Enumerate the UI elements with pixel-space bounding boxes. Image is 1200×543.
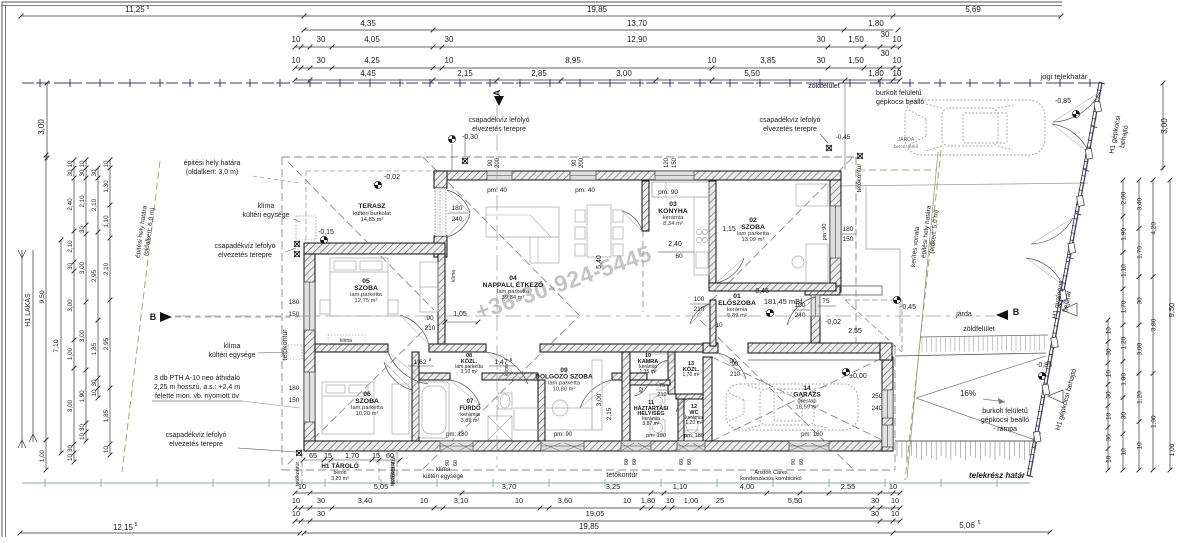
svg-text:10: 10 [1106, 327, 1113, 335]
svg-text:4,45: 4,45 [360, 69, 376, 78]
svg-text:5,40: 5,40 [596, 255, 603, 269]
svg-text:3,00: 3,00 [1160, 118, 1169, 134]
svg-text:200: 200 [495, 157, 501, 168]
left chain 7,10 [60, 240, 62, 453]
window east garage [882, 390, 893, 418]
svg-text:250: 250 [872, 393, 883, 400]
svg-text:30: 30 [881, 49, 890, 58]
svg-text:10: 10 [893, 69, 902, 78]
svg-text:pm: 180: pm: 180 [801, 432, 823, 438]
svg-text:10: 10 [420, 496, 428, 505]
top dimension row 4 [295, 67, 900, 69]
svg-text:30: 30 [67, 169, 74, 177]
svg-text:(oldalkert: 3,0 m): (oldalkert: 3,0 m) [186, 169, 239, 176]
gate arcs pedestrian [1031, 218, 1073, 244]
svg-text:1,90: 1,90 [79, 390, 86, 403]
svg-text:10: 10 [515, 496, 523, 505]
svg-text:10: 10 [623, 496, 631, 505]
svg-text:3,40: 3,40 [358, 496, 373, 505]
svg-text:pm: 40: pm: 40 [487, 187, 507, 194]
svg-text:10: 10 [893, 56, 902, 65]
svg-text:-0,85: -0,85 [1055, 98, 1071, 105]
outer wall north [434, 171, 841, 180]
svg-text:GARÁZS: GARÁZS [793, 390, 821, 399]
svg-text:3,00: 3,00 [79, 261, 86, 274]
door szoba05 [400, 315, 429, 345]
svg-text:10: 10 [1106, 455, 1113, 463]
svg-text:30: 30 [1121, 412, 1128, 420]
svg-text:90: 90 [488, 159, 494, 166]
svg-text:1,20 m²: 1,20 m² [686, 420, 703, 426]
roof contour tetokontur [282, 156, 856, 158]
svg-text:10: 10 [79, 160, 86, 168]
right dim chain x=1139 [1138, 180, 1140, 470]
svg-text:H1 LAKÁS: H1 LAKÁS [23, 293, 32, 327]
svg-text:180: 180 [289, 299, 300, 306]
svg-text:-0,02: -0,02 [384, 174, 400, 181]
svg-text:3,85: 3,85 [760, 56, 776, 65]
svg-text:30: 30 [317, 509, 325, 518]
svg-text:60: 60 [453, 460, 459, 466]
svg-text:csapadékvíz lefolyó: csapadékvíz lefolyó [214, 243, 275, 250]
door dolgozo [580, 380, 612, 408]
svg-text:1,50: 1,50 [848, 35, 864, 44]
svg-text:10: 10 [889, 482, 897, 491]
svg-text:zöldfelület: zöldfelület [963, 326, 995, 333]
parking car dashed top right [905, 100, 1045, 155]
svg-text:2,95: 2,95 [91, 269, 98, 282]
svg-text:90: 90 [445, 460, 451, 466]
konyha west wall [642, 181, 649, 231]
svg-text:30: 30 [1106, 391, 1113, 399]
svg-text:30: 30 [79, 169, 86, 177]
door nappali-corridor 1 [388, 352, 428, 384]
svg-text:ELŐSZOBA: ELŐSZOBA [718, 298, 756, 307]
svg-text:1,05: 1,05 [453, 311, 467, 318]
svg-text:30: 30 [1106, 434, 1113, 442]
svg-text:1,80: 1,80 [868, 19, 884, 28]
svg-text:210: 210 [657, 392, 666, 398]
svg-text:60: 60 [386, 451, 394, 460]
svg-text:19,05: 19,05 [586, 509, 605, 518]
parking pad bottom edge [836, 183, 1088, 186]
svg-text:csapadékvíz lefolyó: csapadékvíz lefolyó [165, 432, 226, 439]
svg-text:burkolt felületű: burkolt felületű [982, 408, 1028, 415]
svg-text:60: 60 [624, 459, 630, 465]
svg-text:-0,30: -0,30 [462, 134, 478, 141]
svg-text:13,70: 13,70 [627, 19, 648, 28]
svg-text:10: 10 [91, 389, 98, 397]
garage west wall [703, 357, 712, 441]
roof hip/ridge dashed diagonals [288, 162, 434, 310]
svg-text:csapadékvíz lefolyó: csapadékvíz lefolyó [759, 117, 820, 124]
svg-text:2,40: 2,40 [67, 198, 74, 211]
svg-text:3,25: 3,25 [606, 482, 621, 491]
svg-text:elvezetés terepre: elvezetés terepre [472, 126, 526, 133]
door furdo [450, 380, 480, 405]
svg-text:60: 60 [632, 459, 638, 465]
svg-text:2,15: 2,15 [606, 407, 613, 420]
svg-text:1,70: 1,70 [345, 451, 359, 460]
front door opening [811, 295, 820, 316]
svg-text:30: 30 [871, 509, 879, 518]
svg-text:-0,45: -0,45 [900, 304, 916, 311]
svg-text:10: 10 [445, 56, 454, 65]
svg-text:10: 10 [103, 446, 110, 454]
svg-text:150: 150 [672, 157, 678, 168]
svg-text:60: 60 [675, 253, 683, 260]
svg-text:210: 210 [425, 325, 436, 332]
svg-text:2,55: 2,55 [848, 328, 862, 335]
door terasz to nappali double [447, 190, 470, 213]
svg-text:klíma: klíma [224, 343, 241, 350]
garage car dashed [726, 384, 858, 430]
svg-text:42: 42 [639, 387, 645, 393]
svg-text:2,15: 2,15 [457, 69, 473, 78]
svg-text:1,10: 1,10 [103, 215, 110, 228]
svg-text:pm: 90: pm: 90 [554, 432, 573, 438]
left dim chain x=110 [109, 160, 111, 455]
ramp outline [895, 353, 1046, 356]
svg-text:4,00: 4,00 [740, 482, 755, 491]
svg-text:240: 240 [795, 312, 806, 319]
svg-text:5: 5 [147, 5, 150, 11]
svg-text:5: 5 [135, 522, 138, 528]
svg-text:30: 30 [91, 379, 98, 387]
bed szoba02 [796, 184, 828, 206]
svg-text:4,35: 4,35 [360, 19, 376, 28]
furdo sink and shower [498, 393, 512, 409]
svg-text:pm: 180: pm: 180 [446, 432, 468, 438]
svg-text:H1 TÁROLÓ: H1 TÁROLÓ [321, 461, 359, 470]
svg-text:3,00: 3,00 [1137, 342, 1144, 355]
right 9,50 chain [1169, 180, 1171, 470]
svg-text:30: 30 [1137, 297, 1144, 305]
svg-text:10: 10 [893, 35, 902, 44]
svg-text:10,20 m²: 10,20 m² [356, 411, 379, 417]
svg-text:90: 90 [729, 358, 737, 365]
svg-text:2,10: 2,10 [67, 240, 74, 253]
svg-text:60: 60 [687, 459, 693, 465]
svg-text:TERASZ: TERASZ [358, 203, 385, 210]
svg-text:5,50: 5,50 [788, 496, 803, 505]
south wall [304, 441, 893, 451]
left dim chain x=98 [97, 168, 99, 398]
eloszoba west wall [710, 300, 716, 346]
window south haztartasi [621, 441, 651, 451]
svg-text:240: 240 [452, 216, 463, 223]
svg-text:30: 30 [445, 35, 454, 44]
svg-text:3,89 m²: 3,89 m² [461, 418, 480, 424]
svg-text:1,70: 1,70 [1137, 246, 1144, 259]
bottom dim row A [295, 492, 900, 494]
door garage from hall [718, 353, 746, 379]
svg-text:2,10: 2,10 [79, 195, 86, 208]
svg-text:SZOBA: SZOBA [355, 398, 379, 405]
fence ruler ticks [1098, 82, 1102, 85]
svg-text:kültéri egysége: kültéri egysége [208, 352, 255, 359]
svg-text:100: 100 [694, 296, 705, 303]
svg-text:1,20: 1,20 [1137, 391, 1144, 404]
svg-text:jogi telekhatár: jogi telekhatár [1040, 72, 1088, 81]
svg-text:10: 10 [1106, 370, 1113, 378]
section line A-A vertical [496, 105, 498, 468]
svg-text:30: 30 [817, 56, 826, 65]
svg-text:tetőkontúr: tetőkontúr [390, 462, 396, 487]
left 3,00 chain [46, 83, 48, 160]
bathtub [419, 382, 449, 438]
left chain 9,50 / 1,00 [45, 155, 47, 470]
porch roof contour dashed [901, 300, 903, 352]
svg-text:10: 10 [292, 509, 300, 518]
svg-text:30: 30 [317, 56, 326, 65]
svg-text:180: 180 [843, 226, 854, 233]
svg-text:klíma: klíma [436, 467, 451, 473]
window north kitchen [655, 171, 694, 180]
svg-text:10: 10 [708, 56, 717, 65]
svg-text:9,50: 9,50 [39, 290, 46, 303]
window west szoba06 [304, 372, 315, 422]
svg-text:30: 30 [317, 35, 326, 44]
dolgozo east wall [622, 352, 630, 441]
svg-text:1,70: 1,70 [1121, 300, 1128, 313]
svg-text:1,85: 1,85 [91, 342, 98, 355]
svg-text:2,95: 2,95 [103, 337, 110, 350]
svg-text:30: 30 [67, 263, 74, 271]
svg-text:csapadékvíz lefolyó: csapadékvíz lefolyó [468, 117, 529, 124]
top dimension row 5 [295, 79, 900, 81]
svg-text:-0,02: -0,02 [825, 319, 841, 326]
svg-text:30: 30 [91, 169, 98, 177]
H1 TAROLO storage outline (dashed, under roof) [301, 452, 303, 484]
svg-text:210: 210 [730, 372, 741, 378]
desk szoba02 [806, 244, 828, 284]
bottom small dims 65 15 1,70 15 60 [303, 459, 400, 461]
szoba05 wardrobe [420, 262, 438, 312]
svg-text:5: 5 [978, 520, 981, 526]
yard step edge [865, 186, 867, 249]
terasz south wall [304, 243, 445, 254]
svg-text:3,10 m²: 3,10 m² [461, 369, 478, 375]
svg-text:elvezetés terepre: elvezetés terepre [169, 441, 223, 448]
svg-text:5,50: 5,50 [744, 69, 760, 78]
bed szoba06 [322, 382, 374, 434]
svg-text:60: 60 [799, 459, 805, 465]
garage north wall [703, 343, 718, 353]
svg-text:pm: 40: pm: 40 [575, 187, 595, 194]
east wall upper [830, 180, 841, 292]
porch column [880, 343, 892, 360]
svg-text:klíma: klíma [451, 270, 457, 282]
svg-text:30: 30 [79, 424, 86, 432]
svg-text:12,75 m²: 12,75 m² [355, 298, 378, 304]
svg-text:1,00: 1,00 [1151, 415, 1158, 428]
svg-text:60: 60 [679, 459, 685, 465]
fence posts [1094, 101, 1102, 112]
svg-text:10: 10 [103, 160, 110, 168]
fence line kerites (tilted) [1030, 83, 1102, 476]
left dim chain x=86 [85, 160, 87, 441]
svg-text:90: 90 [572, 159, 578, 166]
svg-text:1,90: 1,90 [1121, 228, 1128, 241]
svg-text:3,00: 3,00 [79, 329, 86, 342]
svg-text:FÜRDŐ: FÜRDŐ [459, 405, 481, 412]
svg-text:19,85: 19,85 [579, 522, 600, 531]
svg-text:2,40: 2,40 [668, 241, 682, 248]
svg-text:1,00: 1,00 [684, 496, 699, 505]
szoba06 wardrobe [392, 384, 409, 434]
svg-text:KONYHA: KONYHA [658, 208, 688, 215]
svg-text:burkolt felületű: burkolt felületű [876, 90, 922, 97]
svg-text:A: A [492, 89, 502, 96]
svg-text:150: 150 [843, 236, 854, 243]
entry east wall with front door [811, 316, 820, 343]
svg-text:10: 10 [891, 496, 899, 505]
bottom dim row D [20, 532, 300, 534]
svg-text:180: 180 [452, 205, 463, 212]
svg-text:2,55: 2,55 [841, 482, 856, 491]
svg-text:pm: 90: pm: 90 [822, 224, 828, 241]
svg-text:-0,15: -0,15 [318, 229, 334, 236]
svg-text:3,00: 3,00 [67, 299, 74, 312]
sofa sectional corner [486, 207, 559, 237]
svg-text:240: 240 [872, 405, 883, 412]
door konyha [622, 211, 642, 231]
svg-text:11,25: 11,25 [125, 5, 145, 14]
garage east wall [882, 357, 893, 451]
svg-text:10: 10 [292, 496, 300, 505]
green telekresz hatar line [22, 482, 1030, 484]
svg-text:pm: 90: pm: 90 [658, 189, 678, 196]
svg-text:kültéri egysége: kültéri egysége [423, 474, 464, 480]
bottom dim row B [295, 507, 900, 509]
svg-text:2,25 m hosszú, a.s.: +2,4 m: 2,25 m hosszú, a.s.: +2,4 m [154, 384, 240, 391]
ramp triangle 16% [916, 356, 1046, 440]
svg-text:3,20 m²: 3,20 m² [331, 476, 349, 482]
corridor north wall [315, 344, 388, 352]
dolgozo furniture [552, 400, 568, 416]
left dim chain x=74 [73, 160, 75, 462]
svg-text:telekrész határ: telekrész határ [969, 471, 1026, 480]
svg-text:3,00: 3,00 [67, 399, 74, 412]
svg-text:30: 30 [67, 445, 74, 453]
svg-text:12,90: 12,90 [627, 35, 648, 44]
svg-text:JÁRDA: JÁRDA [898, 136, 915, 143]
right top 3,00 chain [1162, 83, 1164, 170]
door haztartasi [634, 384, 648, 396]
svg-text:30: 30 [79, 226, 86, 234]
svg-text:65: 65 [309, 451, 317, 460]
svg-text:3,80: 3,80 [1151, 318, 1158, 331]
svg-text:10: 10 [292, 56, 301, 65]
window east szoba02 [830, 206, 841, 258]
svg-text:75: 75 [822, 298, 830, 305]
west wall upper (nappali) [434, 171, 447, 188]
svg-text:pm: 180: pm: 180 [646, 433, 666, 439]
west wall lower [304, 254, 315, 451]
svg-text:10: 10 [1137, 442, 1144, 450]
svg-text:10: 10 [1121, 448, 1128, 456]
svg-text:gépkocsi beálló: gépkocsi beálló [876, 99, 924, 106]
svg-text:1,50: 1,50 [848, 56, 864, 65]
JARDA walk at entry [844, 83, 846, 170]
svg-text:-0,45: -0,45 [753, 288, 769, 295]
gate arcs top (car gate) [1053, 92, 1100, 122]
svg-text:10: 10 [79, 433, 86, 441]
svg-text:2,00: 2,00 [1121, 191, 1128, 204]
olive top segment right [858, 169, 936, 171]
svg-text:30: 30 [1106, 348, 1113, 356]
window south furdo [440, 441, 473, 451]
svg-text:2,10: 2,10 [103, 262, 110, 275]
top dimension row 1 [21, 15, 304, 17]
szoba06 east wall [412, 352, 419, 441]
svg-text:1,20: 1,20 [1121, 336, 1128, 349]
svg-text:B: B [150, 312, 157, 322]
svg-text:3,87 m²: 3,87 m² [643, 421, 660, 427]
page frame [2, 1, 1062, 3]
svg-text:120: 120 [664, 157, 670, 168]
svg-text:1,10: 1,10 [673, 482, 688, 491]
grass comb below ramp [895, 440, 1035, 442]
svg-text:3 db PTH A-10 neo áthidaló: 3 db PTH A-10 neo áthidaló [154, 375, 240, 382]
svg-text:- rámpa: - rámpa [993, 426, 1017, 433]
door szoba02 [716, 258, 744, 283]
svg-text:180: 180 [289, 385, 300, 392]
interior wall szoba05 east [438, 254, 445, 345]
svg-text:járda: járda [955, 311, 972, 318]
kitchen counter [652, 182, 709, 197]
svg-text:200: 200 [579, 157, 585, 168]
svg-text:10: 10 [67, 454, 74, 462]
svg-text:150: 150 [289, 397, 300, 404]
sidewalk comb right of house [920, 335, 1048, 337]
door eloszoba entry [787, 297, 815, 325]
svg-text:tetőkontúr: tetőkontúr [606, 472, 638, 479]
svg-text:1,30: 1,30 [103, 180, 110, 193]
kamra block walls [668, 352, 675, 394]
svg-text:150: 150 [289, 311, 300, 318]
svg-text:3,40: 3,40 [1137, 197, 1144, 210]
svg-text:210: 210 [694, 306, 705, 313]
svg-text:19,85: 19,85 [587, 5, 608, 14]
haztartasi washer [650, 420, 665, 435]
svg-text:8,95: 8,95 [565, 56, 581, 65]
top dimension row 2 [304, 29, 893, 31]
bottom dim row C [295, 520, 900, 522]
window south garage [789, 441, 829, 451]
olive building-limit line right [905, 150, 941, 480]
H1 LAKAS bracket [21, 250, 23, 448]
door wc [676, 398, 690, 412]
svg-text:NAPPALI, ÉTKEZŐ: NAPPALI, ÉTKEZŐ [483, 280, 544, 289]
svg-text:3,00: 3,00 [37, 119, 46, 135]
svg-text:SZOBA: SZOBA [741, 224, 765, 231]
svg-text:4,05: 4,05 [364, 35, 380, 44]
svg-text:5,05: 5,05 [374, 482, 389, 491]
svg-text:1,80: 1,80 [1121, 373, 1128, 386]
top dimension row 3 [295, 46, 900, 48]
svg-text:75: 75 [659, 383, 665, 389]
svg-text:16,59 m²: 16,59 m² [796, 405, 819, 411]
door eloszoba to corridor [690, 304, 710, 324]
svg-text:30: 30 [317, 496, 325, 505]
kamra shelf [646, 354, 674, 362]
section line B-B horizontal [175, 315, 995, 317]
svg-text:1,85: 1,85 [103, 409, 110, 422]
svg-text:8,34 m²: 8,34 m² [663, 221, 683, 227]
window north 2 [570, 171, 596, 180]
